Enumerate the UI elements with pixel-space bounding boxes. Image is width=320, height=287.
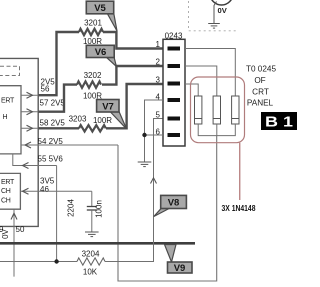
wire pin54 with arrow bbox=[21, 144, 118, 146]
wire pin57 thin part with arrow bbox=[21, 111, 38, 113]
callout V5 bbox=[107, 13, 117, 31]
pin 50 wire with up arrow bbox=[13, 210, 15, 277]
capacitor 2204 bbox=[91, 191, 93, 206]
dashed sheet boundary top right bbox=[189, 1, 237, 31]
svg-text:B 1: B 1 bbox=[265, 114, 293, 131]
svg-text:2204: 2204 bbox=[67, 199, 76, 217]
svg-text:3201: 3201 bbox=[84, 19, 102, 28]
wire pin4 to ground bbox=[145, 100, 164, 162]
svg-text:55 5V6: 55 5V6 bbox=[38, 155, 64, 164]
svg-text:46: 46 bbox=[40, 185, 49, 194]
IC block 2 (CONVERT/LATCH/LATCH) outline bbox=[0, 173, 20, 209]
connector pin bars bbox=[168, 47, 181, 138]
wire 3204 to connector pin 5 with up arrow bbox=[105, 119, 163, 262]
wire 3201 to connector pin 1 bbox=[103, 32, 163, 49]
svg-text:CRT: CRT bbox=[252, 88, 269, 97]
0V bus (thick) bbox=[0, 242, 195, 245]
wire connector pin2 to diode 2 bbox=[185, 66, 217, 96]
wire circle to ground bbox=[214, 2, 217, 24]
svg-text:3204: 3204 bbox=[82, 250, 100, 259]
wire 55 vertical to resistor 3204 junction bbox=[56, 166, 58, 262]
wire 3203 to connector pin 3 bbox=[106, 84, 163, 128]
wire pin6 to junction bbox=[145, 134, 164, 136]
svg-text:5: 5 bbox=[156, 111, 161, 120]
red leader line to 3X 1N4148 bbox=[239, 143, 241, 200]
junction dot 3204/55 bbox=[54, 259, 58, 263]
svg-text:V7: V7 bbox=[102, 102, 114, 113]
svg-text:V8: V8 bbox=[168, 198, 180, 209]
svg-text:V5: V5 bbox=[94, 3, 106, 14]
resistor 3203 bbox=[79, 125, 106, 131]
resistor 3202 bbox=[77, 81, 101, 87]
wire pin56 thick run to resistor 3201 bbox=[38, 32, 79, 95]
resistor 3201 bbox=[79, 29, 103, 35]
svg-text:1: 1 bbox=[156, 40, 161, 49]
resistor 3204 wire left bbox=[0, 261, 77, 263]
red highlight box around diodes bbox=[191, 77, 245, 143]
0V source circle (cut at top) bbox=[210, 0, 233, 5]
svg-text:57 2V5: 57 2V5 bbox=[40, 99, 66, 108]
callout V6 bbox=[106, 57, 116, 67]
diode cathode bus bbox=[198, 124, 235, 136]
svg-text:H: H bbox=[3, 114, 8, 121]
svg-text:0V: 0V bbox=[218, 6, 228, 15]
IC block 1 (CONVERT/LATCH) outline bbox=[0, 86, 21, 154]
svg-text:10K: 10K bbox=[83, 268, 98, 277]
dashed sub-block inside IC bbox=[0, 66, 20, 75]
ground for pins 4/6 bbox=[138, 162, 152, 167]
IC outer package box bbox=[0, 58, 38, 226]
diode D1 (1N4148) bbox=[195, 96, 202, 124]
svg-text:3202: 3202 bbox=[84, 71, 102, 80]
svg-text:3: 3 bbox=[156, 76, 161, 85]
svg-text:100R: 100R bbox=[93, 116, 112, 125]
wire loop 54 to diode bus (left/bottom/right) bbox=[118, 136, 217, 281]
svg-text:3X 1N4148: 3X 1N4148 bbox=[222, 203, 256, 213]
wire pin55 with arrow bbox=[13, 154, 57, 166]
svg-text:ERT: ERT bbox=[1, 98, 15, 105]
wire 3202 to connector pin 2 bbox=[102, 66, 163, 85]
callout V9 bbox=[165, 245, 177, 263]
svg-text:58 2V5: 58 2V5 bbox=[40, 119, 66, 128]
wire connector pin3 to diode 1 bbox=[185, 84, 198, 96]
wire connector pin1 to diode 3 bbox=[185, 49, 235, 97]
wire pin46 with arrow bbox=[20, 190, 91, 192]
svg-text:3203: 3203 bbox=[69, 115, 87, 124]
ground for capacitor bbox=[85, 232, 99, 237]
connector 0243 box bbox=[163, 39, 185, 146]
diode D2 (1N4148) bbox=[213, 96, 220, 124]
svg-text:ERT: ERT bbox=[1, 179, 15, 186]
diode bus center lead down bbox=[216, 124, 218, 136]
svg-text:CH: CH bbox=[1, 198, 11, 205]
svg-text:56: 56 bbox=[41, 85, 50, 94]
svg-text:PANEL: PANEL bbox=[247, 99, 274, 108]
svg-text:2: 2 bbox=[156, 58, 161, 67]
svg-text:100n: 100n bbox=[95, 200, 104, 218]
svg-text:CH: CH bbox=[1, 188, 11, 195]
svg-text:V6: V6 bbox=[95, 47, 107, 58]
diode D3 (1N4148) bbox=[232, 96, 239, 124]
wire pin58 thick run to resistor 3203 bbox=[38, 127, 79, 129]
junction dot pin4/pin6 bbox=[142, 133, 146, 137]
callout V7 bbox=[110, 112, 127, 130]
resistor 3204 bbox=[77, 258, 105, 265]
wire pin57 thick run to resistor 3202 bbox=[38, 85, 77, 112]
ground for 0V source bbox=[208, 24, 220, 29]
wire pin56 thin part with arrow bbox=[21, 94, 38, 96]
B1 grid reference box bbox=[261, 112, 297, 130]
callout V8 bbox=[154, 208, 171, 217]
svg-text:V9: V9 bbox=[174, 263, 186, 274]
svg-text:OF: OF bbox=[254, 76, 265, 85]
wire pin58 thin part with arrow bbox=[21, 127, 38, 129]
svg-text:T0 0245: T0 0245 bbox=[246, 65, 276, 74]
svg-text:9: 9 bbox=[0, 225, 4, 234]
svg-text:50: 50 bbox=[16, 225, 25, 234]
